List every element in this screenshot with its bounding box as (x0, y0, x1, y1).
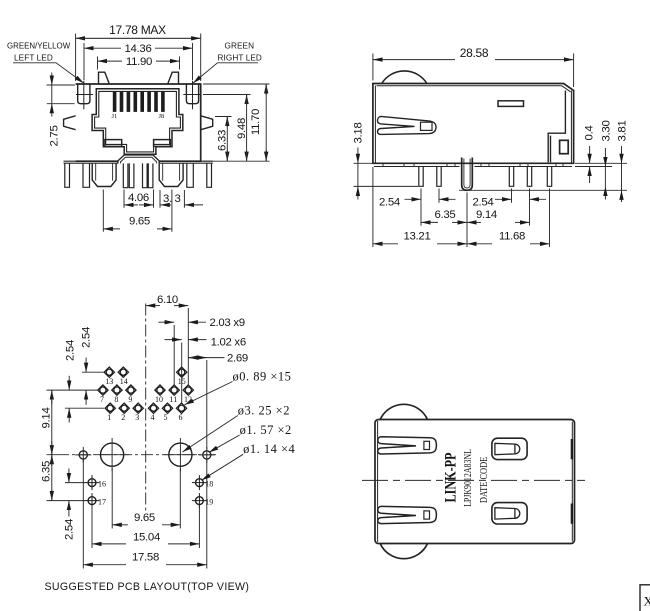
svg-text:3: 3 (135, 413, 139, 422)
pin hole 8 (112, 385, 122, 395)
svg-text:J8: J8 (159, 113, 165, 120)
vertical center line (145, 304, 147, 514)
svg-text:5: 5 (164, 413, 168, 422)
svg-text:10: 10 (155, 395, 163, 404)
svg-text:17.58: 17.58 (132, 552, 159, 564)
svg-text:9: 9 (128, 395, 132, 404)
svg-text:17.78 MAX: 17.78 MAX (109, 23, 166, 37)
pin tip line (459, 189, 627, 191)
svg-text:J1: J1 (112, 113, 118, 120)
pin hole 9 (126, 385, 136, 395)
right side tab (201, 116, 213, 130)
big hole left (3.25) (96, 438, 129, 471)
pin hole 5 (162, 403, 172, 413)
svg-text:8: 8 (114, 395, 118, 404)
center latch block (118, 155, 159, 164)
jack opening outer contour (92, 89, 183, 154)
pin hole 6 (176, 403, 186, 413)
small hole left (1.57) (75, 447, 91, 463)
svg-text:ø0. 89 ×15: ø0. 89 ×15 (233, 370, 292, 384)
pin 1 (left) (419, 167, 423, 187)
pin hole 2 (119, 403, 129, 413)
svg-text:3.81: 3.81 (617, 121, 629, 142)
pin 2 (left) (437, 167, 441, 187)
plastic post right (159, 163, 183, 186)
shield leg far left (65, 163, 70, 187)
svg-text:3.: 3. (163, 193, 172, 205)
svg-text:2: 2 (121, 413, 125, 422)
title block corner box (640, 585, 650, 611)
svg-text:2.03 x9: 2.03 x9 (210, 317, 245, 329)
svg-text:LEFT LED: LEFT LED (14, 54, 53, 63)
svg-text:16: 16 (98, 479, 106, 488)
svg-text:2.54: 2.54 (473, 197, 494, 209)
pin hole 1 (105, 403, 115, 413)
plastic post left (92, 163, 116, 186)
svg-text:RIGHT LED: RIGHT LED (218, 54, 262, 63)
left side tab (64, 116, 76, 130)
hole 16 (85, 475, 100, 490)
svg-text:28.58: 28.58 (460, 46, 489, 60)
svg-text:14: 14 (120, 377, 128, 386)
pin hole 13 (104, 367, 114, 377)
svg-text:4: 4 (151, 413, 155, 422)
svg-text:3: 3 (174, 193, 180, 205)
small hole right (1.57) (199, 447, 215, 463)
left latch ear on top (99, 72, 110, 84)
svg-text:3.18: 3.18 (353, 123, 365, 144)
shield leg right (187, 163, 194, 187)
svg-text:2.54: 2.54 (65, 340, 77, 361)
svg-text:ø1. 57 ×2: ø1. 57 ×2 (240, 423, 292, 437)
big hole right (3.25) (164, 438, 197, 471)
top LED dome arc (380, 404, 427, 419)
left edge inner line (377, 421, 379, 542)
left edge inner line (375, 86, 562, 164)
8 contact blades (113, 91, 165, 112)
svg-text:SUGGESTED PCB LAYOUT(TOP VIEW): SUGGESTED PCB LAYOUT(TOP VIEW) (45, 581, 250, 593)
body outline top view (375, 420, 575, 544)
svg-text:9.65: 9.65 (129, 216, 150, 228)
svg-text:12: 12 (184, 395, 192, 404)
bottom clip slot (378, 506, 437, 523)
pin number labels (100, 377, 192, 422)
svg-text:1: 1 (107, 413, 111, 422)
svg-text:LPJK9012A83NL: LPJK9012A83NL (462, 449, 473, 507)
right edge inner line (562, 86, 572, 164)
pin hole 7 (98, 385, 108, 395)
svg-text:GREEN: GREEN (225, 42, 255, 51)
svg-text:ø1. 14 ×4: ø1. 14 ×4 (243, 442, 295, 456)
hole 18 (192, 475, 207, 490)
bottom shield hole (top view) (492, 503, 527, 524)
pin hole 15 (177, 367, 187, 377)
svg-text:2.54: 2.54 (81, 327, 93, 348)
svg-text:3.30: 3.30 (600, 121, 612, 142)
svg-text:0.4: 0.4 (584, 126, 596, 141)
right edge tick bottom (571, 504, 573, 524)
left corner tab in opening (105, 140, 122, 147)
horizontal center line (57, 454, 219, 456)
pin 4 (right group) (527, 167, 531, 187)
pin hole 10 (155, 385, 165, 395)
center mounting peg (462, 158, 473, 191)
svg-text:GREEN/YELLOW: GREEN/YELLOW (7, 42, 71, 51)
jack opening inner contour (95, 91, 181, 151)
svg-text:ø3. 25 ×2: ø3. 25 ×2 (238, 403, 290, 417)
rear flange panel (548, 91, 565, 163)
svg-text:13: 13 (105, 377, 113, 386)
svg-text:LINK-PP: LINK-PP (442, 452, 460, 502)
svg-text:17: 17 (98, 497, 106, 506)
svg-text:2.69: 2.69 (227, 352, 248, 364)
svg-text:6.35: 6.35 (435, 209, 456, 221)
pin hole 14 (118, 367, 128, 377)
left LED (green/yellow) (76, 81, 93, 109)
svg-text:11.90: 11.90 (126, 56, 152, 68)
svg-text:6.10: 6.10 (157, 294, 178, 306)
svg-text:2.75: 2.75 (49, 126, 61, 147)
svg-text:6.35: 6.35 (41, 461, 53, 482)
connector body J1 front outline (76, 84, 201, 161)
pin hole 3 (133, 403, 143, 413)
svg-text:15.04: 15.04 (133, 531, 160, 543)
top shield hole (top view) (492, 438, 527, 459)
top clip slot (378, 437, 437, 454)
top shield hole bar (498, 101, 524, 107)
clip inner notch (421, 122, 433, 130)
body bottom second line (64, 162, 213, 164)
right corner tab in opening (154, 140, 171, 147)
svg-text:2.54: 2.54 (379, 197, 400, 209)
svg-text:9.14: 9.14 (41, 408, 53, 429)
pin 5 (right group) (547, 167, 551, 187)
pin 3 (right group) (509, 167, 513, 187)
svg-text:9.14: 9.14 (476, 209, 497, 221)
hole 19 (192, 493, 207, 508)
top hump arc (382, 71, 427, 84)
pin hole 12 (183, 385, 193, 395)
shield leg left (83, 163, 90, 187)
right edge tick top (571, 439, 573, 459)
svg-text:6.33: 6.33 (217, 130, 229, 151)
svg-text:DATE CODE: DATE CODE (479, 457, 490, 504)
svg-text:11.70: 11.70 (250, 109, 262, 135)
right LED (green) (183, 81, 200, 109)
pin hole 4 (148, 403, 158, 413)
svg-text:11: 11 (170, 395, 178, 404)
svg-text:4.06: 4.06 (128, 192, 149, 204)
snag-free clip slot (378, 116, 437, 134)
svg-text:14.36: 14.36 (124, 43, 151, 55)
svg-text:2.54: 2.54 (64, 519, 76, 540)
shield leg far right (207, 163, 212, 187)
bottom LED dome arc (380, 544, 427, 559)
svg-text:X: X (644, 594, 650, 609)
svg-text:11.68: 11.68 (499, 231, 525, 243)
pin hole 11 (169, 385, 179, 395)
svg-text:9.65: 9.65 (134, 512, 155, 524)
right edge inner line (571, 422, 573, 542)
svg-text:1.02 x6: 1.02 x6 (211, 337, 246, 349)
center shield legs (123, 163, 153, 187)
right latch ear on top (168, 72, 179, 84)
body side outline (373, 84, 574, 164)
svg-text:6: 6 (179, 413, 183, 422)
center axis line (362, 479, 585, 481)
svg-text:7: 7 (100, 395, 104, 404)
flange square hole (560, 140, 569, 153)
hole 17 (85, 493, 100, 508)
standoff strip (374, 166, 572, 168)
svg-text:13.21: 13.21 (403, 231, 430, 243)
